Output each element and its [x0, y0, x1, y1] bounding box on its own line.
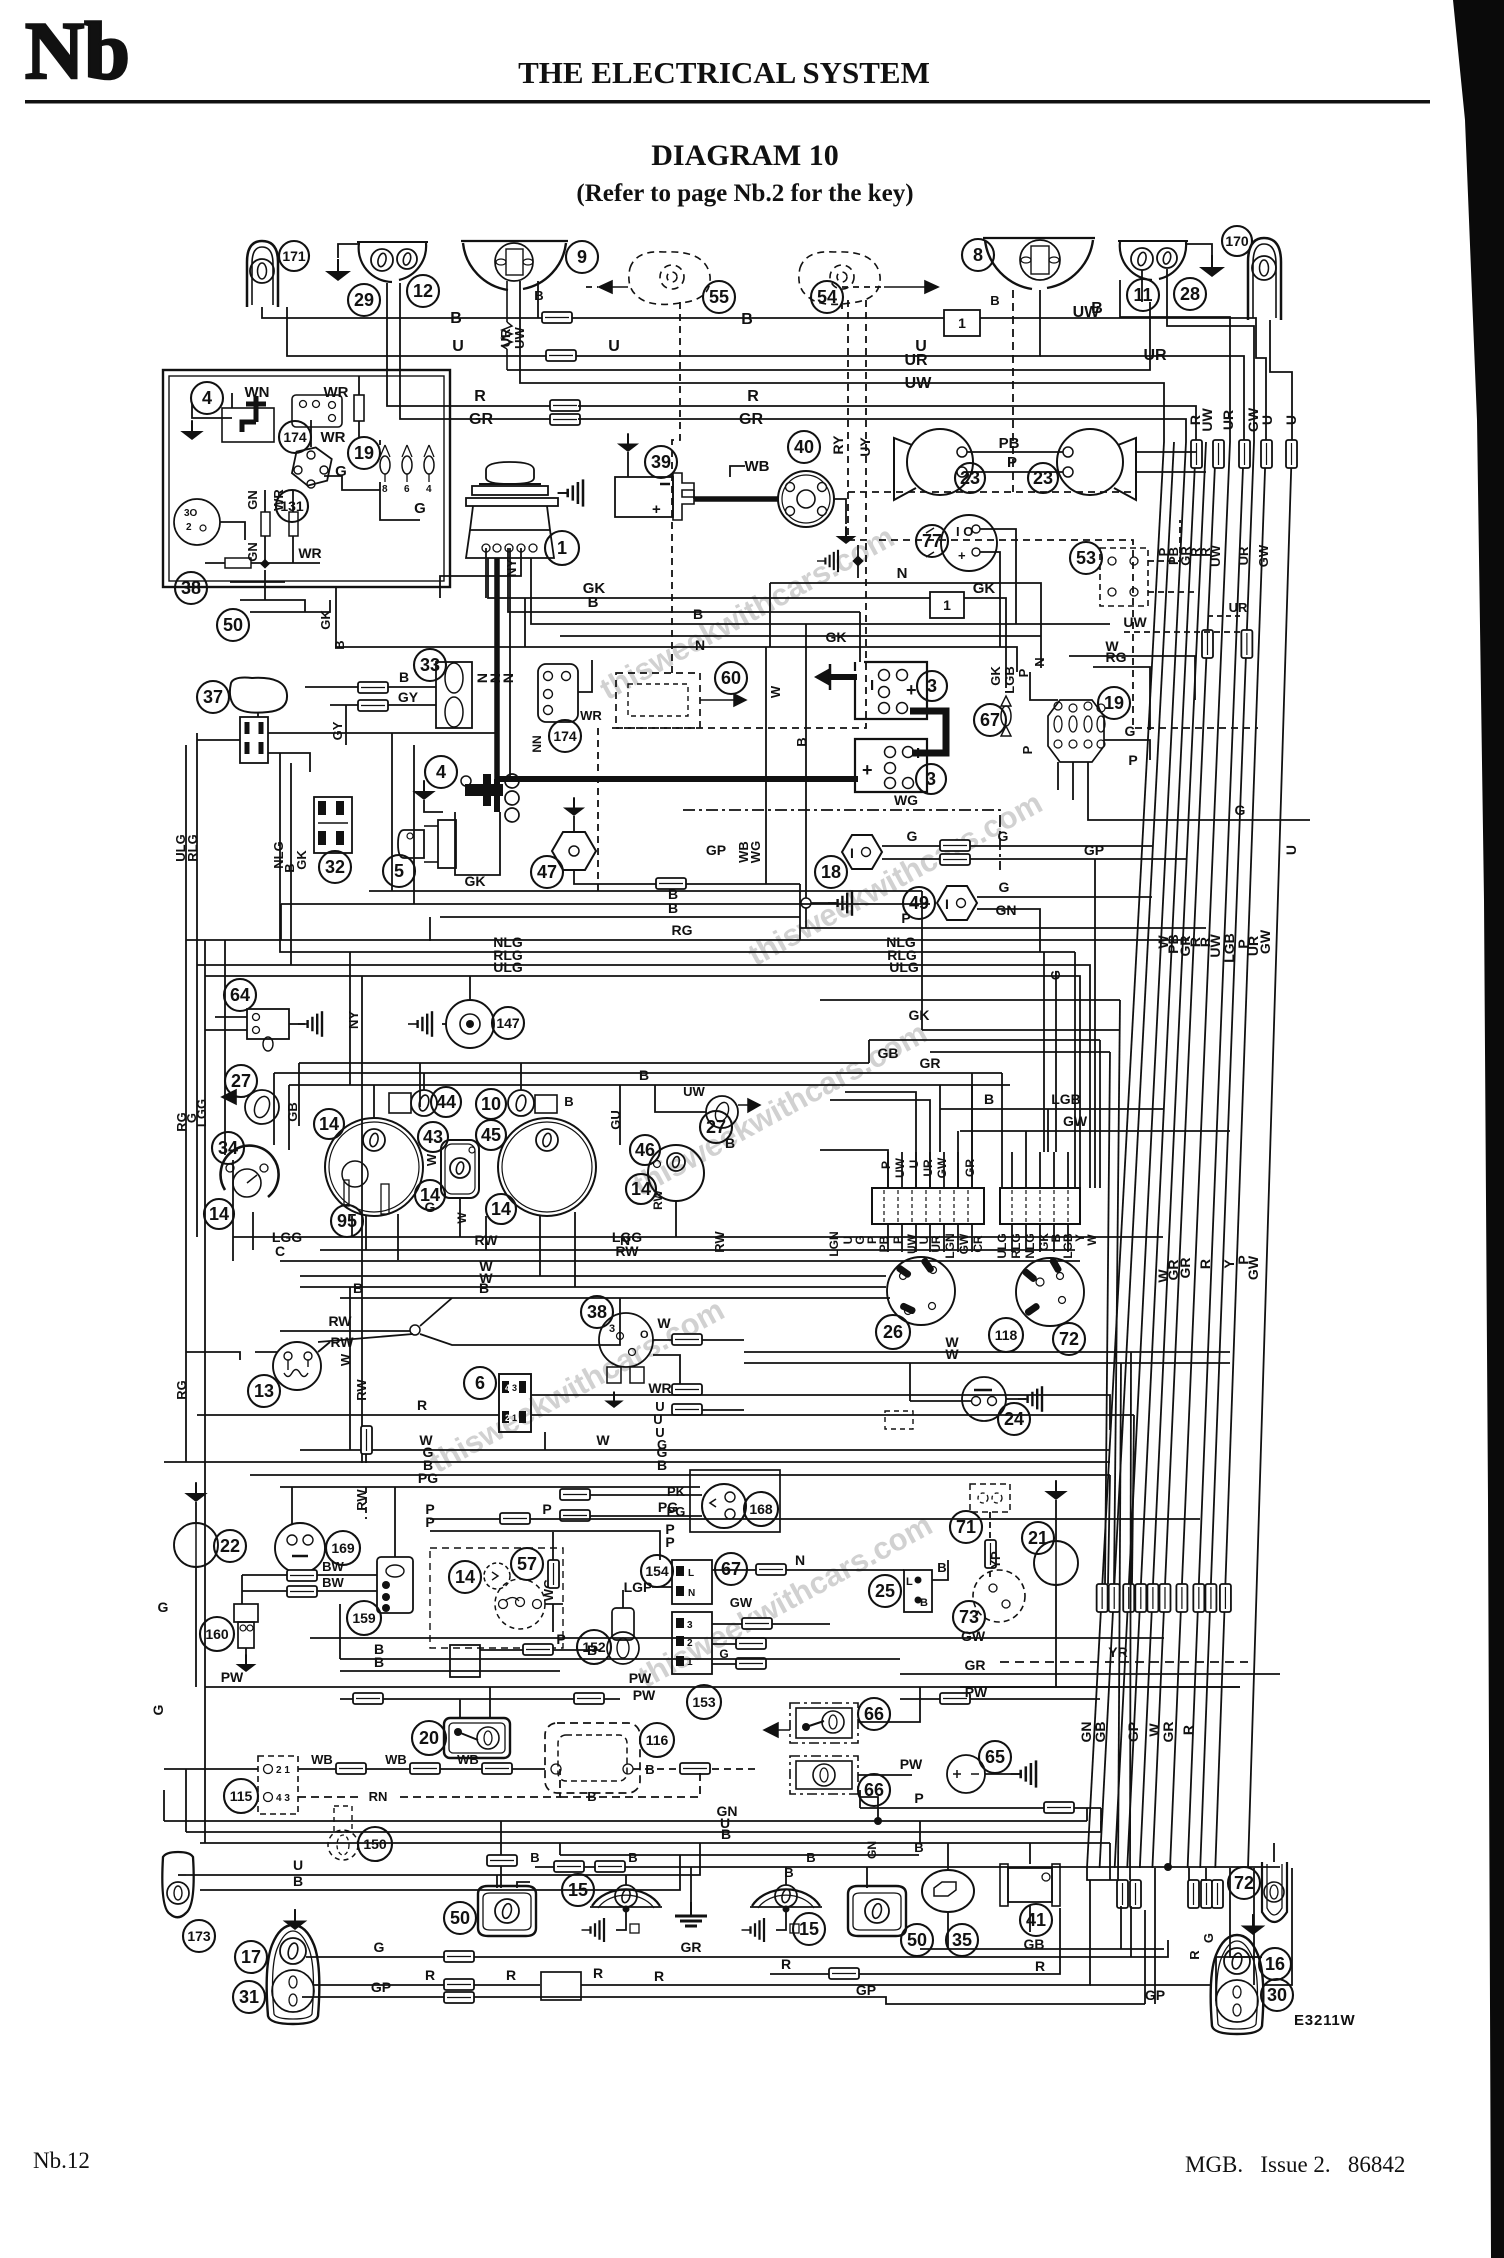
lamp 16 bulb [1224, 1948, 1250, 1974]
battery 3 upper [855, 662, 927, 719]
wire NY [440, 548, 521, 598]
ref 174 [549, 720, 581, 752]
ref 72 [1228, 1867, 1260, 1899]
svg-text:PW: PW [633, 1687, 656, 1703]
ref 54 [811, 281, 843, 313]
wire GR [971, 1152, 973, 1188]
ref 65 [979, 1741, 1011, 1773]
svg-text:ULG: ULG [995, 1233, 1009, 1258]
svg-text:50: 50 [450, 1908, 470, 1928]
wire GN zig [860, 1797, 878, 1821]
lamp 50b bulb [865, 1899, 889, 1923]
ref 46 [630, 1135, 660, 1165]
wire BW 2 [317, 1590, 377, 1592]
snap connector block A [872, 1188, 984, 1224]
ref 45 [476, 1120, 506, 1150]
wire N [770, 583, 1041, 668]
svg-text:B: B [628, 1850, 637, 1865]
wire P 2 [430, 1531, 660, 1560]
svg-text:73: 73 [959, 1607, 979, 1627]
svg-text:GR: GR [965, 1657, 986, 1673]
wire WR [292, 536, 294, 563]
dashed wire [1148, 520, 1180, 561]
inline connector [1117, 1880, 1128, 1908]
lamp 10 bulb [508, 1090, 534, 1116]
svg-text:R: R [417, 1397, 427, 1413]
svg-text:UW: UW [893, 1157, 907, 1178]
wire WB [366, 1768, 410, 1770]
svg-text:W: W [596, 1432, 610, 1448]
svg-text:UR: UR [904, 352, 928, 369]
wire riser [799, 884, 801, 940]
ref 116 [640, 1723, 674, 1757]
inline connector [595, 1861, 625, 1872]
wire [1130, 1906, 1132, 1957]
svg-text:I: I [870, 677, 874, 694]
svg-text:50: 50 [223, 615, 243, 635]
wire RW bus [320, 1249, 1075, 1251]
ref 16 [1259, 1948, 1291, 1980]
svg-text:46: 46 [635, 1140, 655, 1160]
wire RW drop [485, 1216, 487, 1250]
svg-text:RG: RG [174, 1112, 189, 1132]
wire [859, 1790, 861, 1808]
wire P [553, 1649, 600, 1651]
ref 39 [645, 446, 677, 478]
svg-text:WB: WB [736, 841, 751, 863]
wire LGN [943, 1152, 945, 1188]
svg-text:N: N [688, 1588, 695, 1599]
ref 20 [412, 1721, 446, 1755]
wire B to speedo [373, 1085, 375, 1119]
svg-text:PW: PW [221, 1669, 244, 1685]
svg-text:72: 72 [1059, 1329, 1079, 1349]
inline connector [358, 682, 388, 693]
wire GU drop [619, 1085, 621, 1145]
inline connector [548, 1560, 559, 1588]
ground [1044, 1480, 1067, 1500]
svg-text:B: B [937, 1560, 946, 1575]
wire B riser [805, 624, 807, 898]
inline connector [444, 1979, 474, 1990]
wire [358, 421, 360, 438]
svg-text:43: 43 [423, 1127, 443, 1147]
wire B headlamp 9 drop [537, 281, 539, 318]
svg-text:B: B [450, 310, 462, 327]
wire GW [957, 1152, 959, 1188]
svg-text:B: B [332, 640, 347, 649]
wire B stub [857, 545, 859, 578]
wire G to lamp 16 [1230, 1868, 1262, 1957]
svg-text:B: B [741, 311, 753, 328]
snap connector block B [1000, 1188, 1080, 1224]
wire W riser [765, 647, 767, 810]
inline connector [672, 1404, 702, 1415]
svg-text:P: P [542, 1501, 551, 1517]
wire [480, 1649, 523, 1651]
inline connector [1212, 1880, 1223, 1908]
wire C bus [280, 1260, 1080, 1262]
lighting switch hexagon 131 [290, 444, 333, 490]
bus wire [1152, 442, 1216, 1868]
svg-text:25: 25 [875, 1581, 895, 1601]
wire [1011, 1224, 1013, 1252]
svg-text:174: 174 [283, 429, 307, 445]
ref 17 [235, 1941, 267, 1973]
svg-text:N: N [795, 1552, 805, 1568]
svg-text:U: U [1259, 415, 1275, 425]
wire B [932, 1560, 948, 1580]
wire LGP [622, 1590, 624, 1608]
connector 154/67 [672, 1560, 712, 1604]
ref 150 [358, 1827, 392, 1861]
ground [563, 797, 585, 816]
wire WB [512, 1768, 545, 1770]
dashed wire RW [365, 1487, 367, 1519]
wire drop [675, 1201, 677, 1237]
wire GR [274, 1072, 1002, 1074]
sidelamp 170 [1248, 238, 1281, 320]
svg-text:LGB: LGB [1002, 666, 1017, 693]
wire R [314, 1984, 444, 1986]
thick cable into starter [494, 779, 500, 812]
wire GB [299, 1062, 869, 1064]
ref 131 [276, 490, 308, 522]
wire U to headlamp 8 [576, 290, 1040, 356]
svg-text:6: 6 [475, 1373, 485, 1393]
distributor 40 [778, 471, 834, 527]
wire GW [960, 1130, 1230, 1132]
thick brown cable [494, 558, 500, 779]
wire GB long [920, 1948, 1164, 1950]
wire [257, 712, 259, 717]
svg-text:GY: GY [398, 689, 419, 705]
fuel pump 47 [552, 832, 596, 870]
ref 50 [901, 1924, 933, 1956]
svg-text:W: W [945, 1346, 959, 1362]
svg-text:168: 168 [749, 1501, 773, 1517]
headlamp 9 bulb [495, 243, 533, 281]
svg-text:14: 14 [631, 1179, 651, 1199]
svg-text:C: C [275, 1243, 285, 1259]
svg-text:P: P [914, 1790, 923, 1806]
svg-text:P: P [901, 910, 910, 926]
number plate lamp 50 right [848, 1886, 906, 1936]
wire [901, 1224, 903, 1252]
wire W drop [1118, 1363, 1121, 1880]
ground [828, 890, 852, 916]
inline connector [1220, 1584, 1231, 1612]
svg-text:P: P [879, 1161, 893, 1169]
relay box enclosure (items 4/174/19/131) [163, 370, 450, 587]
svg-text:16: 16 [1265, 1954, 1285, 1974]
wire [785, 1867, 787, 1885]
svg-text:2: 2 [186, 522, 192, 533]
svg-text:B: B [920, 1597, 928, 1609]
wire RLG [197, 964, 1080, 966]
wire U [186, 1831, 1101, 1833]
wire PB to bus [1136, 451, 1196, 453]
svg-text:174: 174 [553, 728, 577, 744]
wire RG [186, 1352, 240, 1360]
ref 9 [566, 241, 598, 273]
svg-text:13: 13 [254, 1381, 274, 1401]
HT lead to distributor [694, 496, 778, 502]
ref 4 [425, 756, 457, 788]
svg-text:RW: RW [328, 1313, 352, 1329]
wire N 2 [560, 635, 1041, 637]
wire RW [280, 1330, 410, 1332]
svg-text:160: 160 [205, 1626, 229, 1642]
svg-text:53: 53 [1076, 548, 1096, 568]
ref 71 [950, 1511, 982, 1543]
wire [559, 1843, 561, 1855]
direction indicator repeater 27 left [245, 1090, 279, 1124]
ground wire [192, 404, 232, 418]
wire [1086, 1808, 1088, 1821]
wire LGG drop [351, 1216, 353, 1237]
wire WR wiper [578, 660, 592, 692]
interior courtesy lamps 66 [790, 1703, 858, 1743]
svg-text:U: U [1283, 845, 1299, 855]
wire [586, 286, 598, 288]
arrow left of 66 [764, 1723, 790, 1737]
wire WR [653, 1355, 680, 1389]
repeater lamp 55 (dashed) [629, 252, 710, 305]
bus wire [1087, 442, 1164, 1868]
wire riser [1108, 1475, 1110, 1584]
svg-text:(Refer to page Nb.2 for the ke: (Refer to page Nb.2 for the key) [576, 180, 913, 207]
ref 37 [197, 681, 229, 713]
svg-text:115: 115 [230, 1788, 253, 1804]
wire R to bus [578, 406, 1196, 442]
wire [424, 800, 443, 812]
wire W [744, 1351, 1230, 1353]
svg-text:GK: GK [465, 873, 486, 889]
wire GN [264, 490, 266, 512]
wire WG [683, 810, 1000, 870]
wire [544, 1432, 546, 1450]
inline connector [1202, 630, 1213, 658]
inline connector [1159, 1584, 1170, 1612]
ref 77 [916, 525, 948, 557]
svg-text:P: P [665, 1534, 674, 1550]
svg-text:54: 54 [817, 287, 837, 307]
wire B [289, 1084, 1010, 1086]
wire [1273, 1843, 1275, 1862]
ref 147 [492, 1007, 524, 1039]
dashed wire from 55 [672, 302, 680, 676]
speedo lamp [363, 1129, 385, 1151]
svg-text:47: 47 [537, 862, 557, 882]
connector 53 dashed [1100, 548, 1148, 606]
svg-text:UW: UW [1208, 544, 1223, 566]
lamp 28 bulb [1157, 248, 1177, 268]
wire [1006, 1398, 1026, 1400]
wire [185, 1769, 187, 1832]
thick battery link [910, 711, 946, 753]
wire [909, 1363, 911, 1401]
wire W [653, 1339, 672, 1341]
svg-text:UY: UY [857, 437, 873, 457]
ref 3 [917, 671, 947, 701]
inline connector [336, 1763, 366, 1774]
svg-text:40: 40 [794, 437, 814, 457]
svg-text:GK: GK [318, 610, 333, 630]
ref 15 [562, 1874, 594, 1906]
ref 14 [314, 1109, 344, 1139]
svg-text:R: R [425, 1967, 435, 1983]
wire R long [581, 1880, 1090, 1985]
svg-text:N: N [897, 565, 908, 582]
wire U feed [845, 1092, 916, 1188]
wire [204, 1687, 206, 1843]
relay box on R line [541, 1972, 581, 2000]
svg-text:21: 21 [1028, 1528, 1048, 1548]
wire from column switch [268, 732, 495, 734]
svg-text:PB: PB [877, 1235, 891, 1252]
wire B2 [560, 1854, 919, 1856]
wire [413, 745, 415, 904]
horn relay in box [222, 408, 274, 442]
wire W drop [349, 1287, 351, 1450]
wire [245, 1648, 247, 1657]
wire GK [999, 600, 1001, 647]
inline connector [550, 400, 580, 411]
wire [489, 1687, 491, 1718]
wire GK long [820, 999, 1120, 1001]
reverse switch 35 [922, 1870, 974, 1912]
svg-text:67: 67 [980, 710, 1000, 730]
inline connector [1147, 1584, 1158, 1612]
ref 73 [953, 1601, 985, 1633]
svg-text:P: P [1020, 745, 1035, 754]
svg-text:RW: RW [354, 1489, 369, 1511]
svg-text:GR: GR [1160, 1722, 1176, 1743]
svg-text:28: 28 [1180, 284, 1200, 304]
inline connector [1135, 1584, 1146, 1612]
control box 32 [314, 797, 352, 853]
wire [1188, 1868, 1190, 1880]
svg-text:1: 1 [943, 597, 951, 613]
svg-text:GP: GP [856, 1982, 876, 1998]
ref 11 [1127, 279, 1159, 311]
wire [1120, 1906, 1122, 1949]
wire GK 3 [605, 647, 1017, 672]
wire [252, 1212, 254, 1250]
svg-text:GR: GR [739, 411, 763, 428]
ref 28 [1174, 278, 1206, 310]
wire LGG bus [233, 1236, 1163, 1238]
svg-text:4: 4 [436, 762, 446, 782]
bus wire [1170, 442, 1230, 1868]
wire GR to bus [578, 419, 1186, 442]
thick starter cable [497, 776, 858, 782]
wire PW from 21 [1055, 1585, 1057, 1687]
wire WB [730, 466, 745, 477]
wire [197, 739, 240, 741]
wire [1039, 1152, 1041, 1188]
wire B to sidelamp 170 [980, 318, 1256, 320]
wire [232, 1237, 234, 1261]
svg-text:P: P [1128, 752, 1137, 768]
inline connector [672, 1384, 702, 1395]
wire [1067, 1152, 1069, 1188]
wire RG [186, 939, 1189, 941]
oil pressure switch 18 [842, 835, 882, 869]
svg-text:RN: RN [369, 1789, 388, 1804]
dashed wire [1148, 591, 1196, 593]
svg-text:19: 19 [1104, 693, 1124, 713]
svg-text:4: 4 [505, 1383, 510, 1393]
svg-text:YR: YR [1108, 1644, 1127, 1660]
wire [1025, 1224, 1027, 1252]
wire U sidelamp [287, 307, 546, 356]
svg-text:B: B [693, 606, 703, 622]
svg-text:95: 95 [337, 1211, 357, 1231]
svg-text:WR: WR [324, 384, 349, 401]
wire from 6 [531, 1395, 1110, 1430]
svg-text:14: 14 [209, 1204, 229, 1224]
svg-text:GK: GK [988, 666, 1003, 686]
svg-text:ULG: ULG [889, 959, 919, 975]
wire PW 2 [340, 1698, 620, 1700]
ignition coil 77 [941, 515, 997, 571]
svg-text:O: O [640, 1329, 649, 1341]
wire R2 [474, 1984, 540, 1986]
inline connector [940, 854, 970, 865]
svg-text:WR: WR [648, 1380, 671, 1396]
wire GP riser [1154, 1868, 1156, 2004]
svg-text:RW: RW [474, 1232, 498, 1248]
wire YR [1000, 1661, 1248, 1663]
inline connector [287, 1586, 317, 1597]
svg-text:WR: WR [580, 708, 602, 723]
svg-text:8: 8 [973, 245, 983, 265]
wire GP long [474, 1997, 1145, 2004]
gauge 43 lamp [450, 1158, 470, 1178]
wire from column switch down [391, 733, 393, 891]
ref 53 [1070, 542, 1102, 574]
brake switch 64 [247, 1009, 289, 1039]
wire B bus [340, 1297, 890, 1299]
wire [485, 548, 487, 598]
svg-text:WR: WR [321, 429, 346, 446]
wire W drop [574, 1212, 576, 1287]
wire P to bus [1136, 471, 1206, 473]
wire B down [290, 763, 292, 965]
svg-text:Nb: Nb [25, 5, 130, 96]
ref 60 [715, 662, 747, 694]
svg-text:B: B [990, 293, 999, 308]
wire riser [349, 952, 351, 1085]
inline connector [287, 1570, 317, 1581]
wire GW [712, 1623, 742, 1625]
svg-text:GK: GK [294, 850, 309, 870]
lamp 44 bulb [411, 1090, 437, 1116]
wire N [712, 1569, 756, 1571]
bus wire [1140, 442, 1206, 1868]
ref 67 [715, 1553, 747, 1585]
wire [1039, 1224, 1041, 1252]
wire GK from box [336, 587, 605, 647]
svg-text:31: 31 [239, 1987, 259, 2007]
wire NY riser [469, 976, 471, 1000]
ground hook wire [338, 244, 360, 258]
wire RN 2 [400, 1769, 560, 1797]
fuses item 19 in box [380, 445, 390, 495]
inline connector [940, 1693, 970, 1704]
